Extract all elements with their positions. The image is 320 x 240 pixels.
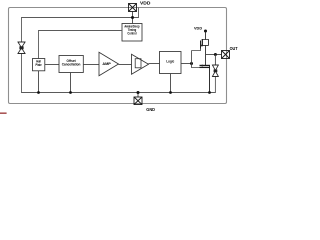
wire: Offset Cancellation to AMP	[83, 64, 99, 66]
wire: Logic output to gate bus	[181, 63, 192, 65]
transistor Q2 (NMOS, rotated)	[200, 66, 211, 93]
GND pad	[134, 97, 142, 105]
svg-text:VDD: VDD	[194, 27, 202, 31]
node on ground rail (Logic)	[169, 91, 172, 94]
node: NMOS drain blob	[201, 65, 203, 67]
wire: AMP to Schmitt trigger	[119, 64, 132, 66]
svg-text:Cancellation: Cancellation	[62, 63, 81, 67]
svg-text:Plate: Plate	[36, 63, 42, 67]
wire: gate bus vertical (to NMOS gate)	[192, 51, 200, 68]
svg-text:Control: Control	[127, 31, 136, 35]
block: Hall Plate	[33, 59, 45, 71]
chip outline	[9, 8, 227, 104]
svg-text:Logic: Logic	[166, 60, 174, 64]
transistor Q1 (PMOS)	[201, 31, 209, 66]
node on ground rail (Offset)	[69, 91, 72, 94]
wire: GND pad stub	[137, 93, 139, 98]
wire: VDD pad stub down to Awake/Sleep box	[132, 12, 134, 24]
wire: OUT line down to TVS	[214, 55, 216, 66]
node on ground rail (GND pad)	[137, 91, 140, 94]
wire: Offset Cancellation bottom to ground rail	[70, 73, 72, 93]
wire: Awake/Sleep to Hall plate bias (left then down)	[39, 31, 123, 59]
wire: PMOS gate from bus	[192, 49, 201, 51]
VDD pad (top)	[129, 4, 137, 12]
decorative red mark (cut-off logo, bottom-left)	[0, 112, 7, 114]
op-amp AMP	[99, 52, 119, 75]
block: Awake/Sleep Timing Control	[122, 24, 142, 42]
schmitt trigger U2	[132, 54, 149, 74]
TVS diode D1 (left, back-to-back)	[18, 42, 25, 54]
wire: Hall Plate to Offset Cancellation	[45, 64, 59, 66]
block: Offset Cancellation	[59, 56, 83, 73]
block: Logic	[160, 52, 182, 74]
node: PMOS source blob	[201, 45, 203, 47]
wire: output node to OUT pad	[206, 54, 222, 56]
wire: left rail below TVS to bottom rail and across to right	[22, 54, 216, 93]
wire: VDD drop from top border to supply rail	[22, 8, 139, 43]
svg-text:GND: GND	[146, 107, 155, 112]
svg-text:OUT: OUT	[230, 46, 238, 51]
node: gate bus junction	[190, 62, 193, 65]
node: TVS tap on OUT line	[214, 53, 217, 56]
node: VDD stub dot	[204, 30, 207, 33]
node on ground rail (Hall)	[37, 91, 40, 94]
node: junction under VDD pad	[131, 16, 134, 19]
wire: Hall Plate bottom to ground rail	[38, 71, 40, 93]
svg-text:VDD: VDD	[140, 1, 150, 6]
wire: Schmitt to Logic	[149, 63, 160, 65]
TVS diode D2 (output, back-to-back)	[212, 65, 218, 77]
wire: Logic bottom to ground rail	[170, 74, 172, 93]
node on ground rail (NMOS source)	[208, 91, 211, 94]
OUT pad	[222, 51, 230, 59]
svg-text:AMP: AMP	[102, 61, 111, 66]
